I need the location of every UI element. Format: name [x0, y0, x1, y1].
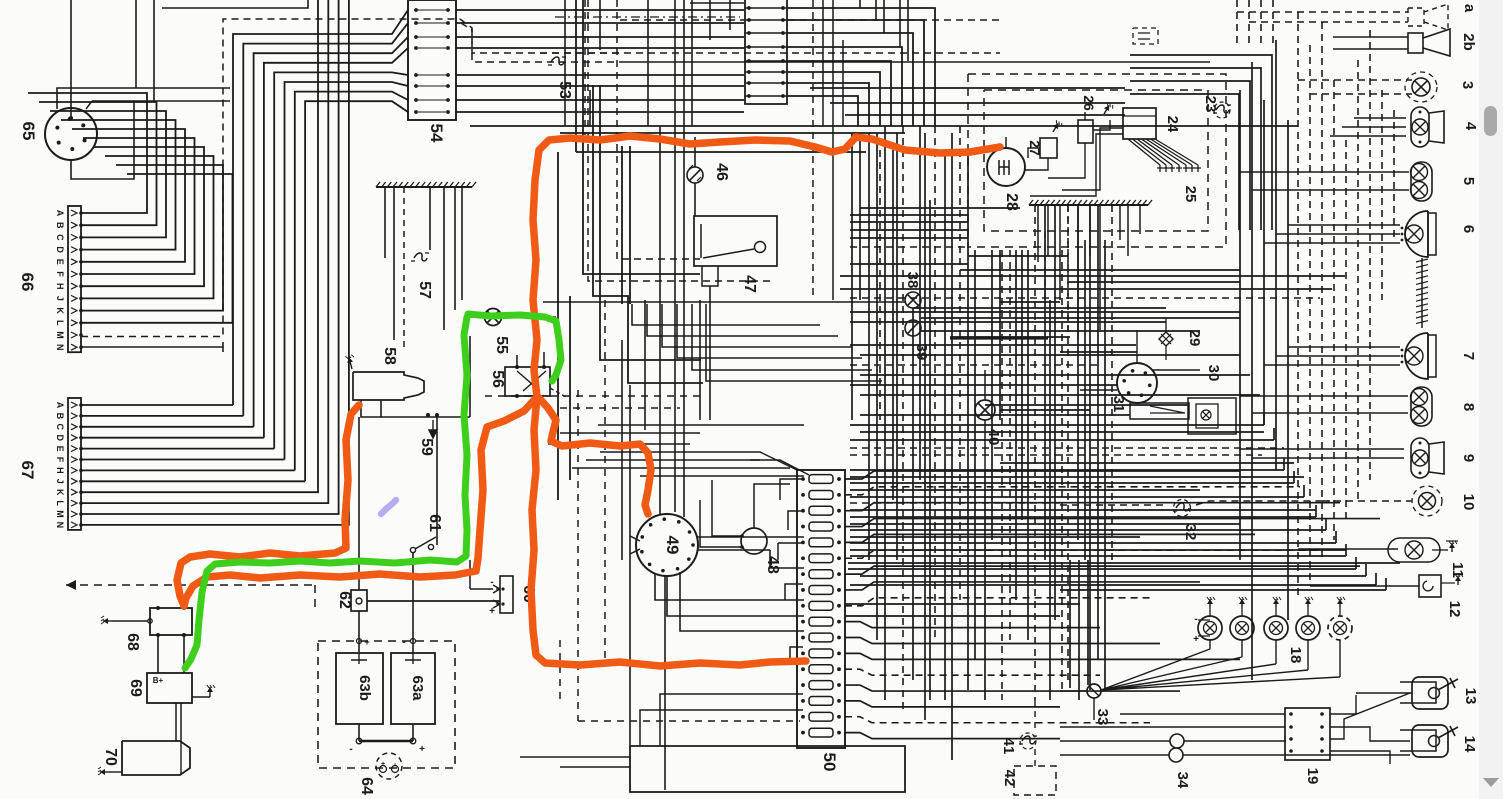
wire nested corners below bus	[632, 304, 882, 381]
wire lamp 55 leads	[466, 316, 556, 318]
svg-text:57: 57	[416, 281, 433, 299]
svg-text:B+: B+	[153, 676, 164, 685]
connector 54	[408, 0, 456, 120]
grommet 34	[1170, 734, 1184, 748]
lamp 38	[905, 292, 921, 308]
dashed frame outer	[968, 74, 1226, 247]
ground 11	[1451, 543, 1453, 552]
wire 60 upper	[470, 560, 493, 589]
svg-text:12: 12	[1446, 601, 1463, 618]
wire right bundle verticals	[1240, 40, 1288, 680]
wire fuse fan right solid	[845, 471, 1380, 739]
wire fuse fan right dashed	[845, 487, 1320, 723]
wire 31 leads	[1080, 330, 1200, 390]
svg-text:-: -	[490, 577, 493, 588]
dashed box 42	[1014, 766, 1056, 795]
svg-text:49: 49	[663, 536, 682, 555]
ground 12	[1441, 582, 1455, 584]
svg-text:42: 42	[1001, 770, 1018, 787]
svg-text:L: L	[55, 500, 65, 506]
wire top-left of ladder verticals	[565, 0, 908, 126]
ground 26	[1104, 105, 1109, 114]
svg-text:59: 59	[418, 438, 435, 456]
svg-text:7: 7	[1460, 352, 1477, 360]
wire long bus y302	[543, 301, 905, 303]
svg-text:D: D	[55, 434, 65, 441]
svg-text:18: 18	[1287, 647, 1304, 664]
wire center mesh horizontals dashed	[850, 247, 1320, 503]
wire 47 down	[709, 286, 711, 336]
svg-text:41: 41	[1000, 738, 1017, 755]
wire bundle 66 inner family	[28, 93, 233, 323]
wire 26 leads	[1048, 112, 1110, 178]
svg-text:+: +	[489, 606, 495, 617]
ground 70	[108, 771, 122, 773]
svg-text:B: B	[55, 413, 65, 420]
svg-text:62: 62	[336, 591, 353, 609]
buzzer 12	[1419, 575, 1441, 597]
svg-text:N: N	[55, 344, 65, 351]
wire 67 pin stubs	[81, 0, 349, 525]
svg-text:11: 11	[1449, 562, 1466, 578]
flasher 13	[1412, 677, 1448, 709]
wire center mesh verticals	[852, 126, 1105, 760]
svg-text:D: D	[55, 246, 65, 253]
svg-text:H: H	[55, 283, 65, 290]
svg-text:69: 69	[127, 679, 144, 697]
lamp pair 8	[1411, 387, 1432, 426]
svg-text:30: 30	[1205, 365, 1222, 382]
wire feeds right solid	[1240, 37, 1419, 693]
wire 49 bottom leads	[655, 573, 804, 600]
battery 63b	[336, 653, 383, 724]
dashed box around 63	[318, 641, 455, 768]
wire center dashed verticals	[578, 390, 800, 721]
svg-text:34: 34	[1174, 772, 1191, 789]
green highlight 55-to-56	[468, 314, 561, 381]
fuse box 50	[797, 470, 845, 748]
svg-text:31: 31	[1110, 396, 1127, 413]
wire dashed mid horizontal	[485, 395, 705, 397]
purple accent mark	[381, 500, 396, 514]
svg-text:9: 9	[1460, 454, 1477, 462]
svg-text:5: 5	[1460, 177, 1477, 185]
wire 29	[1165, 318, 1167, 360]
svg-text:C: C	[55, 234, 65, 241]
svg-text:C: C	[55, 424, 65, 431]
svg-text:8: 8	[1460, 403, 1477, 411]
wire plug 65 pin up	[70, 0, 72, 118]
scrollbar down arrow	[1483, 778, 1499, 787]
svg-text:64: 64	[358, 777, 375, 795]
clamp 57	[414, 253, 427, 261]
wire 56 top leads	[517, 352, 544, 404]
clamp 23	[1216, 105, 1229, 113]
wire bundle 54 to 67 verticals	[233, 10, 408, 481]
wire 33 fan to lamps	[1101, 640, 1340, 690]
relay 62	[351, 590, 367, 611]
svg-text:65: 65	[19, 122, 38, 141]
headlight 9	[1411, 438, 1429, 478]
svg-text:58: 58	[381, 347, 398, 365]
wire plug 65 corner lines	[57, 88, 230, 109]
wire center mesh verticals dashed	[880, 126, 1112, 710]
svg-text:J: J	[55, 479, 65, 484]
wire bottom horizontals	[520, 757, 630, 767]
svg-text:+: +	[364, 637, 369, 647]
wire 66 pin N	[81, 346, 223, 348]
svg-text:3: 3	[1459, 81, 1476, 89]
wire upper horizontals	[620, 61, 1210, 63]
starter 70	[122, 741, 190, 775]
svg-text:B: B	[55, 222, 65, 229]
wire 62 row	[367, 600, 500, 602]
dashed box top	[1133, 28, 1158, 44]
relay 56	[505, 367, 550, 396]
svg-text:50: 50	[820, 753, 839, 772]
ignition switch 49	[636, 514, 698, 576]
orange highlight horn-to-56	[533, 136, 1000, 397]
coil box at 31	[1130, 403, 1189, 419]
orange highlight pump-to-generator	[177, 405, 359, 606]
ground bar over 57	[376, 186, 472, 188]
wire dashed 32 line	[1060, 504, 1168, 506]
svg-text:-: -	[1194, 614, 1197, 625]
svg-text:-: -	[349, 744, 352, 755]
wire 50 top fan	[730, 452, 797, 470]
svg-text:39: 39	[913, 344, 930, 361]
connector plug 65	[45, 108, 97, 160]
svg-text:N: N	[55, 522, 65, 529]
svg-text:28: 28	[1003, 193, 1020, 211]
wire feeds right dashed	[1237, 12, 1412, 501]
svg-text:-: -	[402, 637, 405, 648]
lamp 11	[1388, 538, 1440, 562]
svg-text:29: 29	[1186, 330, 1203, 347]
wire center-left verticals	[558, 0, 866, 500]
multi-pin connector top-center	[745, 0, 787, 104]
svg-text:24: 24	[1164, 116, 1181, 133]
connector strip 67	[68, 398, 81, 530]
wire dashed top right verticals	[1237, 0, 1273, 46]
node 33	[1087, 684, 1101, 698]
green highlight 55-to-battery	[185, 317, 467, 668]
wire rows 54 to ladder	[456, 10, 744, 112]
svg-text:26: 26	[1081, 95, 1097, 111]
dashed wire with arrow	[66, 584, 315, 586]
wire right bundle verticals dashed	[1298, 12, 1394, 600]
ground 58	[349, 357, 352, 369]
wires below ground bar	[385, 187, 462, 340]
svg-text:23: 23	[1202, 96, 1219, 113]
wire dashed top row	[620, 19, 1004, 21]
svg-text:67: 67	[18, 461, 37, 480]
svg-text:J: J	[55, 296, 65, 301]
wire 49 right leads	[697, 537, 804, 568]
ground bar right	[1029, 204, 1148, 206]
svg-text:13: 13	[1462, 688, 1479, 705]
wire staircase stubs	[1264, 413, 1386, 590]
svg-text:14: 14	[1461, 736, 1478, 753]
wire 19 leads	[1060, 695, 1410, 764]
svg-text:56: 56	[489, 370, 506, 388]
svg-text:54: 54	[427, 124, 446, 143]
relay 26	[1078, 120, 1093, 143]
svg-text:K: K	[55, 307, 65, 314]
battery 69	[147, 673, 192, 703]
pins 25 fan	[1128, 139, 1201, 172]
orange highlight 56-to-generator	[184, 398, 536, 606]
lamp 3	[1412, 78, 1430, 96]
svg-text:19: 19	[1304, 768, 1321, 785]
svg-text:a: a	[1461, 4, 1478, 13]
svg-text:M: M	[55, 510, 65, 518]
svg-text:47: 47	[741, 275, 758, 293]
battery 63a	[391, 653, 435, 724]
lamp 10	[1419, 493, 1436, 510]
svg-text:6: 6	[1460, 225, 1477, 233]
wire center mesh horizontals	[810, 88, 1400, 616]
horn 2b	[1408, 33, 1423, 53]
switch 47	[694, 216, 777, 266]
clamp 32	[1176, 503, 1189, 511]
scrollbar track	[1479, 0, 1503, 799]
orange highlight 56-to-fusebox	[531, 397, 806, 666]
wire horizontals right of 56	[548, 425, 804, 476]
svg-text:M: M	[55, 331, 65, 339]
relay 24	[1123, 108, 1156, 139]
lamp row 18	[1198, 616, 1222, 640]
svg-text:61: 61	[426, 514, 443, 532]
svg-text:46: 46	[713, 163, 730, 181]
relay box 19	[1285, 708, 1330, 760]
wire plug 65 bottom loop	[71, 101, 134, 179]
headlamp 7	[1405, 333, 1428, 379]
lamp 40	[975, 400, 995, 420]
svg-text:K: K	[55, 489, 65, 496]
fuel pump 58	[353, 372, 424, 400]
svg-text:F: F	[55, 271, 65, 277]
svg-text:33: 33	[1094, 709, 1111, 726]
box bottom center	[630, 746, 905, 792]
svg-text:32: 32	[1182, 524, 1199, 541]
wire ladder right staircase	[787, 8, 935, 126]
generator 68	[150, 608, 192, 635]
svg-text:A: A	[55, 210, 65, 217]
orange highlight 56-to-49	[539, 398, 651, 514]
wire 48 leads	[700, 480, 790, 547]
wire 33 left	[1060, 691, 1094, 720]
svg-text:70: 70	[102, 748, 119, 766]
ground right of 69	[192, 696, 210, 698]
lamp 46	[687, 167, 703, 183]
svg-text:55: 55	[493, 336, 510, 354]
wire 27 leads	[1025, 148, 1048, 170]
wire center-left dashed	[588, 0, 773, 281]
wire 61 down	[412, 553, 414, 641]
svg-text:+: +	[419, 744, 425, 755]
dashed frame inner	[984, 90, 1208, 231]
wires below right ground bar	[1038, 205, 1140, 340]
connector strip 66	[68, 206, 81, 352]
svg-text:F: F	[55, 457, 65, 463]
svg-text:4: 4	[1462, 122, 1479, 131]
svg-text:63a: 63a	[409, 675, 426, 701]
wire 49 to bottom box	[664, 576, 666, 790]
wire 58 to 62 to 63b	[358, 417, 360, 652]
svg-text:66: 66	[18, 273, 37, 292]
svg-text:10: 10	[1460, 494, 1477, 511]
wire staircase into relay frames	[1130, 55, 1272, 230]
ground 27	[1053, 123, 1058, 132]
svg-text:38: 38	[904, 272, 921, 289]
lamp 55	[485, 309, 502, 326]
svg-text:+: +	[381, 761, 385, 768]
svg-text:63b: 63b	[356, 675, 373, 701]
switch 61	[410, 547, 415, 552]
svg-text:A: A	[55, 402, 65, 409]
wire 66 pin M dashed	[81, 19, 460, 337]
wire 28 top	[1005, 137, 1007, 148]
svg-text:L: L	[55, 320, 65, 326]
wire 63 bottom link	[359, 724, 413, 741]
wire 49 top leads	[660, 80, 684, 517]
relay 27	[1040, 138, 1057, 158]
wire 63a top	[412, 641, 414, 653]
dashed frame stubs	[960, 150, 1045, 300]
scrollbar thumb	[1484, 106, 1497, 136]
wire 68 to 69	[158, 635, 184, 673]
svg-text:H: H	[55, 467, 65, 474]
clamp 43	[1022, 736, 1035, 744]
horn 28	[987, 148, 1025, 186]
wire main horizontal bus	[470, 126, 1298, 133]
junction 60	[500, 576, 513, 613]
headlamp 6	[1405, 211, 1428, 257]
ground left of 68	[103, 620, 112, 622]
wire 42 dashed	[1034, 700, 1036, 766]
wire top edge line	[162, 0, 308, 8]
svg-text:53: 53	[556, 81, 573, 99]
heater element	[1421, 258, 1423, 328]
svg-text:E: E	[55, 446, 65, 452]
wire 69 to 70	[176, 703, 181, 741]
wire fuse left stubs	[640, 479, 803, 746]
svg-text:25: 25	[1182, 186, 1199, 203]
wire dash-dot row	[555, 16, 740, 18]
sensor 30	[1188, 398, 1236, 434]
connector 64	[376, 753, 402, 779]
switch 59	[426, 413, 430, 417]
lamp 29	[1159, 332, 1173, 346]
svg-text:2b: 2b	[1460, 33, 1477, 51]
horn 2a dashed	[1408, 8, 1424, 26]
svg-text:68: 68	[124, 633, 141, 651]
wire 59 vertical	[436, 417, 438, 545]
headlight 4	[1411, 107, 1429, 147]
wire 58 right	[381, 336, 470, 417]
flasher 14	[1412, 725, 1448, 757]
lamp pair 5	[1411, 162, 1432, 201]
clamp 53	[551, 57, 564, 65]
svg-text:E: E	[55, 259, 65, 265]
wire 46	[694, 137, 696, 216]
wire 24 left leads	[1030, 128, 1123, 196]
wire 68 left to ground	[112, 620, 148, 622]
wire 34 rows	[1060, 741, 1410, 755]
wire 40 leads	[984, 370, 986, 470]
lamp 39	[905, 320, 921, 336]
distributor 31	[1117, 363, 1157, 403]
relay 48	[741, 528, 767, 554]
wire center verticals	[622, 300, 710, 746]
